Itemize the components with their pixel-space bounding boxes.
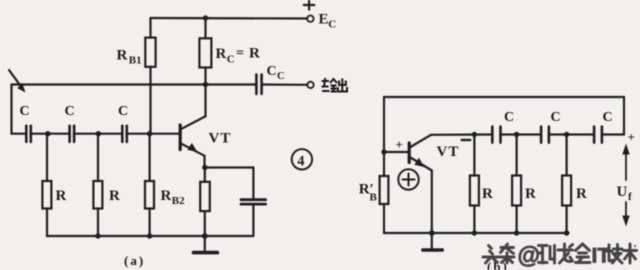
node 1 [45,131,50,136]
svg-text:4: 4 [297,153,304,169]
svg-text:R: R [576,186,587,202]
label: + of EC [304,1,315,10]
svg-text:C: C [328,19,336,31]
svg-text:R: R [117,48,128,64]
卧 [539,246,555,264]
transistor VT (b) [408,143,411,163]
龙 [558,244,573,263]
svg-text:R: R [249,46,260,62]
wire: left vertical top [383,97,385,176]
capacitor C1 (b) [492,127,500,143]
resistor RB1 [149,18,151,38]
resistor RC [204,18,206,38]
svg-text:+: + [628,130,635,145]
svg-text:B: B [370,192,378,204]
resistor R'B [380,176,389,204]
出 [338,79,347,92]
capacitor CC [256,75,261,94]
svg-text:R: R [525,186,536,202]
capacitor CE branch [205,166,254,168]
svg-text:+: + [396,137,403,152]
svg-text:B2: B2 [172,195,185,207]
svg-text:R: R [482,186,493,202]
node: emitter [202,165,207,170]
svg-text:R: R [56,188,67,204]
resistor R1 (a) [46,134,48,181]
wire: left drop [10,85,12,134]
capacitor C2 (b) [541,127,549,143]
svg-text:(a): (a) [124,253,145,268]
transistor VT (a) [179,125,182,150]
node: collector junction [203,82,208,87]
svg-text:B1: B1 [129,55,142,67]
resistor RE (a) [204,168,206,182]
wire: C3 to base [128,133,179,135]
node: base node (b) [381,149,386,154]
svg-text:C: C [227,54,235,66]
wire C2 to C3 [75,133,121,135]
resistor R2 (a) [97,134,99,181]
wire: bottom rail (a) [47,235,253,237]
wire: base lead (b) [384,151,408,153]
svg-text:C: C [118,104,128,119]
wire: top supply rail (a) [151,17,307,20]
label minus at collector [461,139,472,141]
label 输出 (drawn strokes) [322,78,348,92]
svg-text:=: = [236,46,244,61]
条 [501,244,515,263]
svg-text:R: R [109,188,120,204]
svg-text:C: C [504,110,514,125]
node 3 (base node) [147,131,152,136]
ground (a) [204,236,206,251]
capacitor C1 (a) [12,133,26,135]
circled 4 [292,149,312,169]
node: top rail / RC junction [203,15,208,20]
capacitor C2 (a) [70,126,75,142]
feedback break arrow [9,70,26,93]
Uf arrow [622,144,629,227]
svg-text:E: E [319,12,329,28]
输 [322,78,338,92]
capacitor C3 (a) [122,126,127,142]
术 [624,244,637,263]
terminal: output circle [307,82,313,88]
svg-text:R: R [216,46,227,62]
terminal EC circle [307,16,313,22]
技 [606,245,623,264]
wire: top feedback rail (b) [384,96,624,98]
capacitor C3 (b) [594,127,602,143]
source circle [398,169,418,189]
node 2 [96,131,101,136]
wire: feedback rail (collector to phase network) [12,83,256,85]
svg-text:IT: IT [592,245,611,268]
wire: right vertical [623,97,625,135]
wire: collector line with caps [431,133,491,136]
resistor R3 (b) [565,135,567,176]
svg-text:C: C [65,104,75,119]
svg-text:C: C [267,64,277,79]
wire C1 to C2 [32,133,69,135]
resistor R2 (b) [515,135,517,176]
会 [576,244,591,263]
svg-text:C: C [277,71,285,82]
svg-text:C: C [20,104,30,119]
ground (b) [431,233,433,249]
resistor RB2 [149,134,151,181]
svg-text:f: f [628,191,632,203]
svg-text:@: @ [518,242,540,268]
svg-text:C: C [603,110,613,125]
svg-text:C: C [551,110,561,125]
头 [483,246,499,264]
svg-text:VT: VT [437,144,460,160]
svg-text:U: U [617,184,628,200]
svg-text:VT: VT [209,131,232,147]
svg-text:R: R [161,188,172,204]
wire: bottom rail (b) [384,232,569,234]
resistor R1 (b) [473,135,475,176]
